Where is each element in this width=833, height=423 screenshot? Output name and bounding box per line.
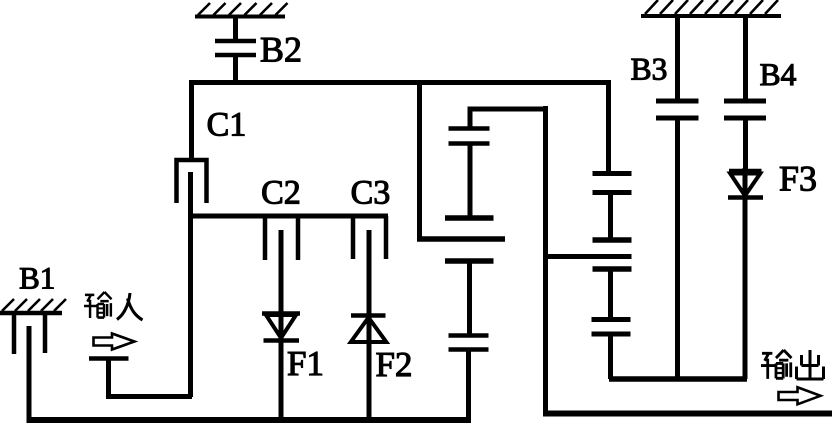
wire: B1 inner shaft to bottom rail [27,326,32,420]
wire: output member tall vertical [543,106,548,414]
wire: C2 inner shaft down to bottom rail [279,230,284,419]
wire: F3 shaft to carrier bar [743,168,748,379]
brake B1 fork [14,315,45,354]
label C1 [208,113,244,136]
wire: planetary 2 lower shaft [608,269,613,320]
node: planetary 2 upper T bar [593,237,632,243]
node: planetary 2 lower T bar [593,266,632,272]
wire: bottom-left rail [27,417,472,423]
clutch C3 [353,216,386,259]
ground (top-right, for B3/B4) [641,0,781,16]
clutch C1 [177,160,207,203]
wire: left drop from top rail to C1 drum [189,80,194,158]
input arrow [94,334,135,350]
label F2 [377,353,411,376]
ground (top-left, for B2) [195,3,288,17]
clutch C2 [265,216,298,260]
label B4 [761,64,796,85]
clutch pack (planetary 2 lower) [592,320,631,335]
wire: planetary 1 sun shaft upper [468,144,473,218]
node: planetary 1 lower T bar [445,258,494,264]
node: planetary 2 carrier bar [609,376,747,382]
char shu (output) [761,350,791,379]
wire: C2/C3 rail [190,214,388,219]
label input (Chinese) [84,292,143,320]
label output (Chinese) [761,350,824,379]
wire: C3 inner shaft down to bottom rail [367,230,372,419]
wire: planetary 2 shaft to carrier bar [608,334,613,379]
wire: planetary 2 shaft [608,193,613,240]
label B2 [261,38,300,62]
char ru (enter) [117,293,143,320]
label F3 [780,167,816,191]
label B3 [632,59,667,80]
char shu (input) [84,292,112,318]
wire: planetary 1 lower shaft [467,261,472,336]
label C2 [263,181,299,204]
wire: planetary 1 ring branch [470,109,543,129]
ground (left, for B1) [0,299,66,313]
brake B2 [215,17,256,84]
clutch pack (planetary 2 upper) [593,174,632,193]
node: planetary 1 carrier bar [417,236,505,242]
wire: planetary 1 lower shaft to bottom rail [466,350,471,420]
wire: bottom-right rail (output shaft) [543,411,832,417]
clutch pack (planetary 1 upper) [449,129,490,144]
label F1 [288,352,322,375]
wire: planetary 1 left vertical (from top rail to carrier bar) [417,82,422,239]
brake B3 [656,16,699,379]
brake B4 [724,16,766,171]
wire: connector to output vertical [543,254,632,259]
output arrow [779,387,821,404]
node: planetary 1 upper T bar [445,215,494,221]
char chu (out) [797,350,824,379]
wire: planetary 2 drop from top rail [606,80,611,174]
one-way clutch F3 [728,171,763,198]
wire: C1 inner shaft (input shaft up through C1) [188,172,193,397]
wire: input shaft T and lead to C1 shaft [89,359,192,397]
wire: main top rail [190,80,611,85]
label B1 [20,268,53,289]
one-way clutch F2 [351,316,387,343]
one-way clutch F1 [262,314,300,341]
clutch pack (planetary 1 lower) [449,336,489,350]
label C3 [352,181,389,204]
